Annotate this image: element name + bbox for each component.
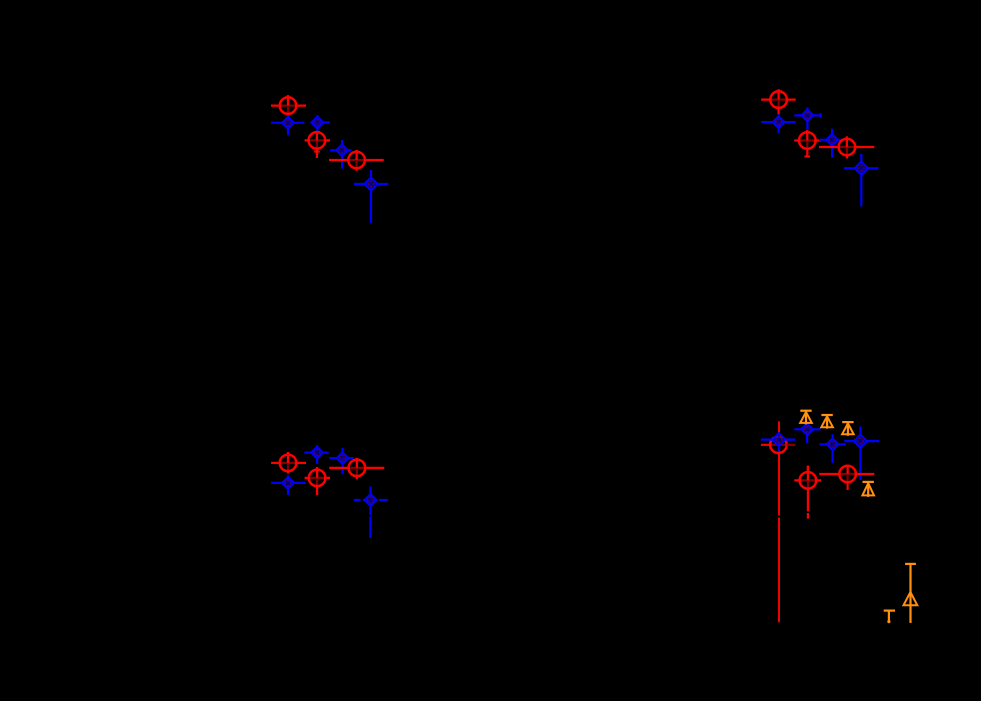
- BR red circle point 3: [819, 466, 874, 490]
- BL blue diamond point 3: [329, 448, 353, 474]
- TR blue diamond point 3: [819, 129, 844, 158]
- BR blue diamond point 1 (overlapping): [761, 433, 795, 452]
- BL blue diamond point 1: [271, 475, 306, 495]
- TR red circle point 2: [794, 130, 820, 158]
- TL red circle point 3: [329, 150, 384, 171]
- BR blue diamond point 4: [844, 426, 879, 480]
- TR blue diamond 2 right bar cap: [820, 113, 822, 117]
- TR blue diamond point 1: [761, 114, 796, 133]
- BR orange triangle point 2: [821, 415, 833, 429]
- BR red circle point 1 (overlapping): [761, 437, 795, 454]
- BR orange triangle point 1: [800, 411, 812, 425]
- TL red circle point 1: [271, 95, 306, 116]
- BR orange triangle point 4: [862, 482, 874, 497]
- BR red circle point 2 (dashed lower bar): [794, 466, 821, 519]
- BL red circle point 2: [305, 467, 330, 495]
- BR small orange T marker: [884, 611, 895, 624]
- BR long red vertical error bar: [778, 421, 780, 622]
- dim overlay on BR red bar right segment: [787, 444, 796, 447]
- TL red circle point 2: [305, 131, 330, 158]
- TL blue diamond point 4: [354, 170, 388, 223]
- TR red circle point 1: [761, 89, 796, 114]
- BR blue diamond point 2: [794, 422, 820, 443]
- TR blue diamond point 2: [794, 107, 820, 129]
- BL red circle point 1: [271, 452, 306, 474]
- TL blue diamond point 2: [311, 115, 330, 132]
- BL red circle point 3: [329, 458, 384, 479]
- BL blue diamond point 2: [304, 445, 328, 464]
- TL blue diamond point 1: [271, 115, 304, 135]
- TR red circle point 3: [819, 136, 874, 158]
- BR blue diamond point 3: [819, 434, 846, 463]
- TR blue diamond point 4: [844, 154, 879, 206]
- BL blue diamond point 4 (dashed error bars): [354, 487, 388, 539]
- TL blue diamond point 3: [330, 140, 352, 169]
- BR orange triangle point 3: [842, 422, 854, 436]
- BR large orange upper-limit marker: [904, 564, 918, 623]
